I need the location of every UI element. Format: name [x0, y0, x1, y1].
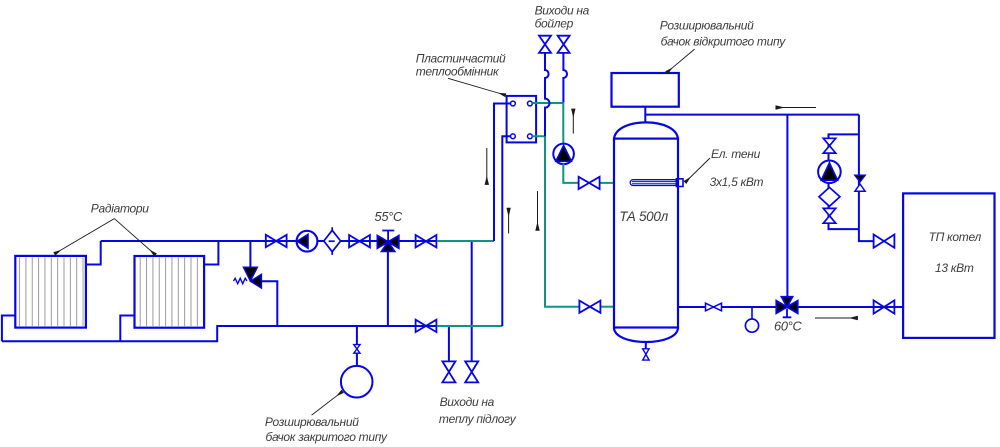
- safety valve SV1: [234, 267, 262, 288]
- closed expansion tank (vessel): [341, 366, 373, 398]
- svg-text:теплу підлогу: теплу підлогу: [439, 412, 517, 426]
- wire: tank bottom right pipe to boiler: [678, 306, 903, 308]
- pump P2 (storage charging pump): [553, 144, 574, 165]
- boiler unit (ТП котел): [903, 193, 994, 338]
- wire: top header to right side: [645, 114, 859, 116]
- teal pipe: return to HX riser: [437, 325, 502, 327]
- wire: bypass branch with pump group: [829, 134, 859, 229]
- leader: heat exchanger label: [448, 78, 505, 95]
- svg-text:3х1,5 кВт: 3х1,5 кВт: [710, 175, 764, 189]
- electric heater (Ел. тени): [630, 179, 683, 187]
- leader: heater label: [686, 158, 711, 182]
- teal pipe: pump suction (HX TR down): [562, 103, 564, 144]
- teal pipe: tank upper port after valve: [600, 182, 614, 184]
- wire: right main drop to boiler supply: [859, 115, 874, 242]
- flow arrow right (boiler return): [815, 317, 857, 319]
- bypass valve BV1: [823, 138, 835, 153]
- wire: boiler line 2 with union: [563, 53, 567, 103]
- svg-text:60°С: 60°С: [774, 319, 802, 334]
- pump P3 (boiler charge pump): [818, 161, 841, 184]
- teal pipe: HX top-right port: [532, 102, 563, 104]
- storage tank TA 500: [614, 122, 678, 342]
- teal pipe: tank bottom port after valve: [601, 306, 614, 308]
- wire: HX bottom-left port to return riser: [502, 136, 510, 326]
- filter F2 (diamond): [819, 187, 840, 206]
- leader: open expansion tank label: [667, 49, 695, 72]
- svg-text:бачок закритого типу: бачок закритого типу: [266, 430, 389, 444]
- boiler outlet valve B1 (Виходи на бойлер): [539, 36, 551, 53]
- leader: closed expansion tank label: [312, 392, 342, 415]
- wire: safety valve inlet: [249, 241, 251, 268]
- wire: R2 bottom connection: [120, 316, 134, 342]
- wire: R1 bottom connection: [2, 316, 15, 342]
- svg-text:13 кВт: 13 кВт: [935, 261, 974, 275]
- wire: safety valve drain: [261, 281, 277, 326]
- svg-text:ТА 500л: ТА 500л: [619, 209, 668, 224]
- flow arrow up (HX return riser): [508, 209, 510, 234]
- boiler outlet valve B2: [558, 36, 570, 53]
- svg-text:ТП котел: ТП котел: [929, 230, 982, 244]
- gate valve V4 (return line): [416, 320, 437, 332]
- svg-text:Виходи на: Виходи на: [535, 4, 590, 18]
- valve (floor outlet 1): [442, 361, 455, 382]
- flow arrow up (pump suction): [572, 110, 574, 134]
- gate valve V3: [416, 235, 437, 247]
- svg-text:теплообмінник: теплообмінник: [416, 65, 500, 79]
- leader: Радіатори to R1: [55, 219, 114, 254]
- flow arrow left (top header): [776, 107, 816, 109]
- svg-text:Пластинчастий: Пластинчастий: [416, 51, 506, 65]
- filter F1 (diamond with dash): [324, 227, 341, 255]
- check valve CV2 (small): [706, 303, 722, 311]
- gate valve V6 (tank lower left): [579, 301, 600, 313]
- wire: R2 top connection: [204, 241, 218, 265]
- svg-text:Ел. тени: Ел. тени: [711, 147, 761, 161]
- wire: bottom return pipe: [2, 326, 438, 341]
- wire: boiler line 1 with union and hop over teal: [545, 53, 550, 136]
- three-way mixing valve 55C: [377, 231, 398, 252]
- svg-text:Розширювальний: Розширювальний: [265, 415, 359, 429]
- wire: R1 top connection: [86, 241, 101, 265]
- wire: HX top-left port to supply riser: [494, 104, 511, 242]
- valve (floor outlet 2): [465, 361, 478, 382]
- gate valve V5 (tank upper left): [579, 177, 600, 189]
- gate valve V2: [349, 235, 370, 247]
- svg-text:Виходи на: Виходи на: [440, 395, 495, 409]
- wire: 3-way 55C bottom drop: [387, 251, 389, 327]
- radiator R2: [135, 256, 205, 328]
- wire: floor heating tap 1: [448, 326, 450, 361]
- flow arrow down (HX supply riser): [486, 148, 488, 184]
- svg-text:55°С: 55°С: [375, 209, 403, 224]
- svg-text:бачок відкритого типу: бачок відкритого типу: [661, 35, 787, 49]
- open expansion tank (vessel): [612, 73, 679, 107]
- gate valve V7 (boiler supply): [874, 235, 895, 248]
- thermometer T1: [745, 307, 758, 332]
- teal pipe: HX bottom-right port down to tank bottom port: [532, 136, 579, 306]
- tank drain valve: [643, 349, 649, 360]
- wire: drop to 60C valve: [786, 115, 788, 297]
- check valve CV1 (vertical): [855, 175, 865, 191]
- wire: radiator supply main y=241: [101, 240, 438, 242]
- svg-text:Розширювальний: Розширювальний: [660, 19, 754, 33]
- tank drain stub: [645, 342, 647, 349]
- wire: tank top to open expansion tank: [644, 107, 646, 123]
- pump P1 (circulation pump, radiators): [297, 231, 318, 252]
- leader: Радіатори to R2: [114, 219, 155, 255]
- closed expansion tank valve: [354, 345, 360, 354]
- three-way mixing valve 60C: [776, 297, 797, 318]
- gate valve V8 (boiler return): [874, 300, 895, 313]
- wire: closed expansion tank stub: [356, 326, 358, 366]
- gate valve V1: [266, 235, 287, 247]
- plate heat exchanger U1: [507, 96, 536, 142]
- bypass valve BV2: [823, 208, 835, 223]
- wire: floor heating tap 2: [471, 241, 473, 361]
- radiator R1: [15, 256, 86, 328]
- teal pipe: mixed supply to HX riser: [437, 240, 494, 242]
- svg-text:бойлер: бойлер: [535, 17, 574, 31]
- teal pipe: pump discharge to tank upper port: [563, 164, 578, 183]
- flow arrow down (tank return): [537, 191, 539, 230]
- svg-text:Радіатори: Радіатори: [91, 202, 149, 216]
